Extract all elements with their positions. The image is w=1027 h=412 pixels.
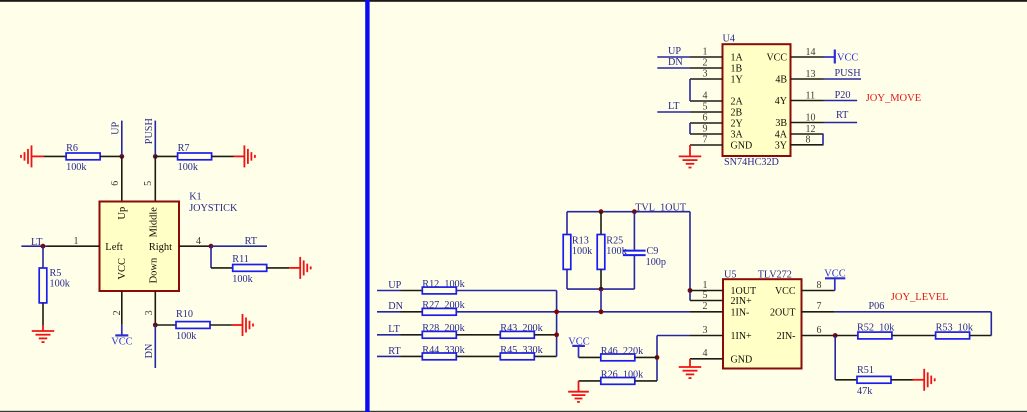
wire R25 top pin — [600, 212, 602, 235]
wire U4 pin 2 stub — [690, 67, 723, 69]
resistor R27 — [422, 308, 456, 315]
resistor R45 — [500, 353, 534, 360]
wire red stub to ground — [42, 325, 44, 331]
power VCC bar (R46) — [572, 345, 585, 347]
svg-text:R43 200k: R43 200k — [500, 323, 543, 334]
svg-text:1Y: 1Y — [731, 75, 743, 86]
wire U4 pin 3 stub — [690, 78, 723, 80]
svg-text:R26 100k: R26 100k — [601, 369, 644, 380]
wire UP net — [657, 56, 690, 58]
svg-text:R12 100k: R12 100k — [422, 279, 465, 290]
svg-text:Left: Left — [105, 242, 123, 253]
wire RT net — [377, 355, 401, 357]
op-amp U5 body — [723, 279, 802, 368]
svg-text:R27 200k: R27 200k — [422, 300, 465, 311]
junction (node/LT) — [554, 332, 559, 337]
wire PUSH vertical — [154, 121, 156, 157]
svg-text:6: 6 — [817, 325, 822, 336]
wire PUSH net — [824, 78, 862, 80]
power VCC bar (U4) — [834, 50, 836, 64]
svg-text:TVL_1OUT: TVL_1OUT — [635, 202, 687, 213]
capacitor C9 — [623, 250, 646, 252]
svg-text:10: 10 — [806, 112, 816, 123]
svg-text:P20: P20 — [835, 90, 851, 101]
resistor R44 — [422, 353, 456, 360]
wire U4 pin 1 stub — [690, 56, 723, 58]
wire DN net — [657, 67, 690, 69]
wire RT net — [211, 245, 267, 247]
bottom border line — [0, 411, 1027, 412]
wire VCC stub — [834, 278, 836, 290]
svg-text:5: 5 — [703, 290, 708, 301]
svg-text:100k: 100k — [178, 162, 199, 173]
svg-text:DN: DN — [668, 57, 683, 68]
wire U5 pin 7 stub — [802, 311, 835, 313]
ground (right of R51) — [924, 369, 935, 391]
svg-text:47k: 47k — [857, 386, 873, 397]
svg-text:R44 330k: R44 330k — [422, 345, 465, 356]
ground (U4 pin 7) — [679, 156, 702, 167]
wire R51 left pin — [835, 379, 857, 381]
wire RT net — [824, 122, 858, 124]
wire U5 pin 8 stub — [802, 290, 835, 292]
wire K1 pin 2 stub — [121, 291, 123, 325]
wire K1 pin 5 stub — [154, 156, 156, 201]
svg-text:100k: 100k — [50, 279, 71, 290]
junction (R46/R26/pin3) — [655, 355, 660, 360]
resistor R7 — [178, 153, 212, 160]
resistor R26 — [601, 378, 635, 385]
resistor R11 — [233, 265, 267, 272]
svg-text:12: 12 — [806, 124, 816, 135]
svg-text:1A: 1A — [731, 53, 744, 64]
svg-text:VCC: VCC — [837, 52, 858, 63]
svg-text:R45 330k: R45 330k — [500, 345, 543, 356]
power VCC bar — [115, 334, 128, 336]
svg-text:JOY_LEVEL: JOY_LEVEL — [891, 292, 949, 303]
svg-text:2Y: 2Y — [731, 119, 743, 130]
svg-text:4B: 4B — [775, 75, 787, 86]
wire red stub to ground — [578, 381, 580, 392]
resistor R6 — [66, 153, 100, 160]
svg-text:SN74HC32D: SN74HC32D — [724, 157, 779, 168]
svg-text:PUSH: PUSH — [835, 68, 862, 79]
junction (bottom rail/R25) — [599, 287, 604, 292]
wire U5 pin 4 stub — [690, 358, 723, 360]
wire DN row to U5 pin2 — [456, 311, 690, 313]
wire R26 left pin — [579, 380, 601, 382]
svg-text:C9: C9 — [647, 246, 659, 257]
wire U4 pin 7 stub — [690, 144, 723, 146]
junction (pin6/R52/R51) — [833, 333, 838, 338]
ground (below R26) — [568, 392, 589, 402]
svg-text:JOYSTICK: JOYSTICK — [189, 203, 238, 214]
svg-text:2B: 2B — [731, 108, 743, 119]
wire to R5 — [42, 246, 44, 268]
svg-text:3B: 3B — [775, 118, 787, 129]
svg-text:100k: 100k — [176, 331, 197, 342]
junction (rail/C9) — [632, 209, 637, 214]
svg-text:RT: RT — [245, 236, 258, 247]
wire red stub to ground — [234, 155, 245, 157]
wire U4 pin 6 stub — [690, 122, 723, 124]
svg-text:4A: 4A — [775, 130, 788, 141]
svg-text:3Y: 3Y — [775, 140, 787, 151]
wire R28 left pin — [401, 334, 423, 336]
ground (U5 pin 4) — [679, 367, 702, 378]
wire R6 right pin — [100, 155, 122, 157]
svg-text:1B: 1B — [731, 64, 743, 75]
wire red GND drop (U5) — [689, 359, 691, 367]
wire pin1 to pin5 — [689, 291, 691, 301]
svg-text:R53 10k: R53 10k — [936, 323, 974, 334]
svg-text:DN: DN — [388, 301, 403, 312]
wire R26 right pin — [635, 380, 657, 382]
wire U4 pin 10 stub — [791, 122, 824, 124]
wire U5 pin 6 stub — [802, 335, 835, 337]
svg-text:7: 7 — [817, 301, 822, 312]
svg-text:R25: R25 — [606, 235, 623, 246]
svg-text:4: 4 — [703, 348, 708, 359]
wire R51 right pin — [891, 379, 914, 381]
wire loop pin3-pin4 — [689, 79, 691, 101]
wire R46 left pin — [579, 356, 601, 358]
svg-text:UP: UP — [111, 121, 122, 134]
wire TVL_1OUT down to U5 — [689, 212, 691, 291]
wire R5 bottom pin — [42, 303, 44, 325]
wire summing node vertical — [556, 291, 558, 357]
svg-text:R46 220k: R46 220k — [601, 346, 644, 357]
wire R13 top pin — [566, 212, 568, 235]
svg-text:Right: Right — [149, 242, 172, 253]
wire loop pin6-pin9 — [689, 123, 691, 134]
svg-text:VCC: VCC — [775, 286, 796, 297]
svg-text:Middle: Middle — [149, 207, 160, 238]
junction (LT/R5) — [41, 244, 46, 249]
wire U4 pin 9 stub — [690, 133, 723, 135]
wire VCC to R46 — [578, 346, 580, 358]
wire U4 pin 8 stub — [791, 144, 824, 146]
svg-text:VCC: VCC — [766, 53, 787, 64]
svg-text:R6: R6 — [66, 143, 78, 154]
resistor R25 — [597, 235, 605, 270]
svg-text:JOY_MOVE: JOY_MOVE — [866, 93, 921, 104]
svg-text:VCC: VCC — [111, 336, 132, 347]
ground (left of R6) — [21, 145, 32, 167]
ground (right of R11) — [300, 257, 311, 279]
junction (RT/R11) — [209, 244, 214, 249]
svg-text:UP: UP — [388, 280, 401, 291]
wire U5 pin3 net — [657, 335, 690, 337]
svg-text:4: 4 — [196, 236, 201, 247]
resistor R13 — [563, 235, 571, 270]
joystick K1 body — [100, 202, 180, 292]
svg-text:5: 5 — [143, 181, 154, 186]
wire red stub to ground — [32, 155, 45, 157]
junction (node/DN) — [554, 309, 559, 314]
wire R7 right pin — [212, 155, 234, 157]
wire U4 pin 5 stub — [690, 111, 723, 113]
wire R10 right pin — [210, 324, 232, 326]
wire red GND drop — [689, 145, 691, 156]
junction (DN/R25 branch) — [599, 309, 604, 314]
svg-text:PUSH: PUSH — [144, 118, 155, 145]
wire R52-R53 — [892, 335, 936, 337]
svg-text:R7: R7 — [178, 143, 190, 154]
junction (R6/UP/pin6) — [119, 154, 124, 159]
resistor R28 — [422, 331, 456, 338]
wire R25 bottom pin — [600, 269, 602, 289]
wire P06 loop vertical — [990, 312, 992, 336]
wire red stub to ground — [913, 379, 925, 381]
wire K1 pin 3 stub — [154, 291, 156, 325]
wire between resistors — [456, 355, 500, 357]
svg-text:2: 2 — [703, 301, 708, 312]
wire U5 pin 5 stub — [690, 300, 723, 302]
wire R7 left pin — [155, 155, 177, 157]
resistor R5 — [39, 268, 47, 303]
resistor R43 — [500, 331, 534, 338]
svg-text:R52 10k: R52 10k — [857, 323, 895, 334]
wire K1 pin 6 stub — [121, 156, 123, 201]
svg-text:5: 5 — [703, 101, 708, 112]
svg-text:11: 11 — [806, 90, 816, 101]
resistor R53 — [936, 332, 970, 339]
wire TVL_1OUT rail — [567, 211, 690, 213]
resistor R10 — [176, 322, 210, 329]
svg-text:4: 4 — [703, 90, 708, 101]
svg-text:4Y: 4Y — [775, 96, 787, 107]
junction (rail/R25) — [599, 209, 604, 214]
wire U4 pin 12 stub — [791, 133, 824, 135]
wire U5 pin 3 stub — [690, 335, 723, 337]
svg-text:RT: RT — [836, 110, 849, 121]
svg-text:2: 2 — [112, 310, 123, 315]
wire P06 net — [835, 311, 992, 313]
svg-text:1IN-: 1IN- — [731, 307, 750, 318]
wire to VCC bar — [824, 56, 835, 58]
svg-text:13: 13 — [806, 69, 816, 80]
resistor R51 — [857, 376, 891, 383]
svg-text:DN: DN — [144, 343, 155, 358]
wire R44 left pin — [401, 355, 423, 357]
wire R45 right pin — [534, 355, 556, 357]
svg-text:R13: R13 — [572, 235, 589, 246]
junction (U5 pin1) — [688, 288, 693, 293]
wire U4 pin 4 stub — [690, 100, 723, 102]
svg-text:R5: R5 — [50, 268, 62, 279]
wire DN net — [377, 311, 401, 313]
svg-text:9: 9 — [703, 123, 708, 134]
wire red stub to ground — [232, 324, 243, 326]
svg-text:100p: 100p — [646, 257, 666, 268]
svg-text:3: 3 — [703, 68, 708, 79]
svg-text:2IN-: 2IN- — [777, 331, 796, 342]
wire R12 left pin — [401, 290, 423, 292]
wire down to R51 — [834, 336, 836, 380]
wire LT net — [657, 111, 690, 113]
svg-text:1: 1 — [703, 46, 708, 57]
svg-text:6: 6 — [110, 181, 121, 186]
svg-text:GND: GND — [731, 141, 753, 152]
wire node to DN row — [600, 289, 602, 312]
wire R46 right pin — [635, 356, 657, 358]
wire R13 bottom pin — [566, 269, 568, 289]
wire UP vertical — [121, 121, 123, 157]
svg-text:LT: LT — [668, 101, 680, 112]
resistor R52 — [858, 332, 892, 339]
svg-text:1: 1 — [74, 236, 79, 247]
wire R6 left pin — [44, 155, 66, 157]
svg-text:3: 3 — [144, 310, 155, 315]
junction (R7/PUSH/pin5) — [153, 154, 158, 159]
wire bottom rail — [567, 288, 634, 290]
svg-text:2: 2 — [703, 57, 708, 68]
svg-text:Up: Up — [117, 207, 128, 220]
svg-text:LT: LT — [388, 324, 400, 335]
resistor R12 — [422, 287, 456, 294]
sheet divider line — [365, 0, 369, 412]
svg-text:7: 7 — [703, 134, 708, 145]
wire R43 right pin — [534, 334, 556, 336]
power VCC bar (U5) — [825, 277, 845, 279]
wire DN vertical — [154, 325, 156, 368]
wire vertical to R46/R26 — [656, 336, 658, 381]
wire U4 pin 13 stub — [791, 78, 824, 80]
wire LT net — [21, 245, 47, 247]
svg-text:RT: RT — [388, 346, 401, 357]
svg-text:100k: 100k — [66, 162, 87, 173]
svg-text:2IN+: 2IN+ — [731, 296, 753, 307]
power VCC stub — [121, 325, 123, 336]
wire U4 pin 14 stub — [791, 56, 824, 58]
svg-text:2A: 2A — [731, 97, 744, 108]
wire U5 pin 2 stub — [690, 311, 723, 313]
ground (right of R7) — [244, 145, 255, 167]
svg-text:1IN+: 1IN+ — [731, 331, 753, 342]
wire R11 right pin — [267, 267, 289, 269]
resistor R46 — [601, 354, 635, 361]
svg-text:VCC: VCC — [824, 269, 845, 280]
wire UP row to node — [456, 290, 556, 292]
wire R11 left pin — [211, 267, 233, 269]
ground (right of R10) — [243, 314, 254, 336]
svg-text:14: 14 — [806, 47, 816, 58]
wire K1 pin 1 stub — [47, 245, 100, 247]
top border line — [0, 0, 1027, 2]
svg-text:K1: K1 — [189, 192, 201, 203]
wire between resistors — [456, 334, 500, 336]
wire U4 pin 11 stub — [791, 100, 824, 102]
svg-text:R28 200k: R28 200k — [422, 323, 465, 334]
wire R52 left pin — [835, 335, 858, 337]
svg-text:3A: 3A — [731, 130, 744, 141]
wire P20 net — [824, 100, 858, 102]
svg-text:100k: 100k — [232, 274, 253, 285]
IC U4 body — [723, 44, 791, 156]
wire R53 right pin — [970, 335, 992, 337]
wire R10 left pin — [155, 324, 176, 326]
svg-text:GND: GND — [731, 354, 753, 365]
svg-text:R51: R51 — [857, 365, 874, 376]
wire U5 pin 1 stub — [690, 290, 723, 292]
wire C9 top pin — [633, 212, 635, 250]
wire red stub to ground — [289, 267, 300, 269]
wire down to R11 — [210, 246, 212, 268]
svg-text:100k: 100k — [572, 246, 593, 257]
wire UP net — [377, 290, 401, 292]
svg-text:R11: R11 — [232, 254, 249, 265]
wire C9 bottom pin — [633, 256, 635, 289]
wire R27 left pin — [401, 311, 423, 313]
svg-text:VCC: VCC — [117, 258, 128, 280]
svg-text:6: 6 — [703, 112, 708, 123]
svg-text:UP: UP — [668, 46, 681, 57]
ground (below R5) — [32, 331, 55, 342]
svg-text:P06: P06 — [869, 301, 885, 312]
svg-text:U4: U4 — [723, 33, 735, 44]
junction (R10/DN) — [153, 323, 158, 328]
wire loop pin12-pin8 — [822, 134, 824, 145]
svg-text:2OUT: 2OUT — [770, 307, 796, 318]
svg-text:3: 3 — [703, 325, 708, 336]
wire LT net — [377, 334, 401, 336]
svg-text:R10: R10 — [176, 309, 193, 320]
svg-text:8: 8 — [806, 135, 811, 146]
svg-text:8: 8 — [817, 280, 822, 291]
svg-text:Down: Down — [149, 257, 160, 283]
wire K1 pin 4 stub — [179, 245, 211, 247]
